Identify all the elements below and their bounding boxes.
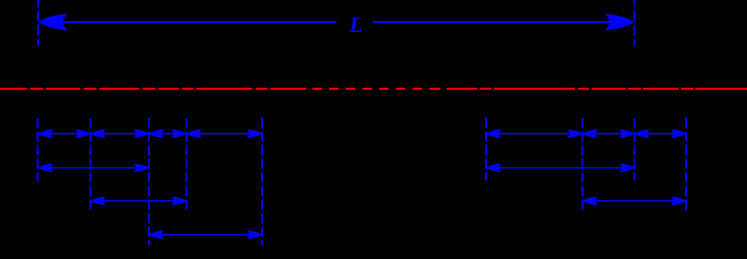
extension line x=686: [685, 118, 687, 213]
svg-text:L: L: [348, 13, 362, 37]
arrow 582.5-634.5: [583, 133, 634, 135]
extension line (top right dashed): [634, 0, 636, 46]
extension line x=90.5: [90, 118, 92, 213]
extension line x=37.5: [37, 118, 39, 181]
extension line x=149: [148, 118, 150, 245]
extension line (top left dashed): [37, 0, 39, 46]
extension line x=634.5b: [634, 118, 636, 180]
row2: arrow 38-149: [39, 167, 149, 169]
arrowhead left: [39, 14, 68, 31]
arrow 38-90.5: [39, 133, 90, 135]
extension line x=486: [485, 118, 487, 180]
arrowhead right: [606, 14, 635, 31]
row1 dimension arrows: [38, 129, 686, 239]
row3: arrow 90.5-186.5: [91, 200, 186, 202]
arrow 486-582.5: [487, 133, 583, 135]
extension line x=262: [261, 118, 263, 245]
row4: arrow 149-262: [150, 234, 262, 236]
dimension arrow L shaft right: [373, 21, 623, 23]
arrow 90.5-149: [91, 133, 149, 135]
extension line x=186.5: [186, 118, 188, 213]
row3: arrow 582.5-686: [583, 200, 686, 202]
red axis line (dashed): [0, 88, 747, 90]
arrow 149-186.5: [150, 133, 187, 135]
extension line x=582.5: [582, 118, 584, 213]
arrow 186.5-262: [187, 133, 262, 135]
row2: arrow 486-634.5: [487, 167, 635, 169]
arrow 634.5-686: [635, 133, 686, 135]
dimension arrow L shaft left: [50, 21, 337, 23]
